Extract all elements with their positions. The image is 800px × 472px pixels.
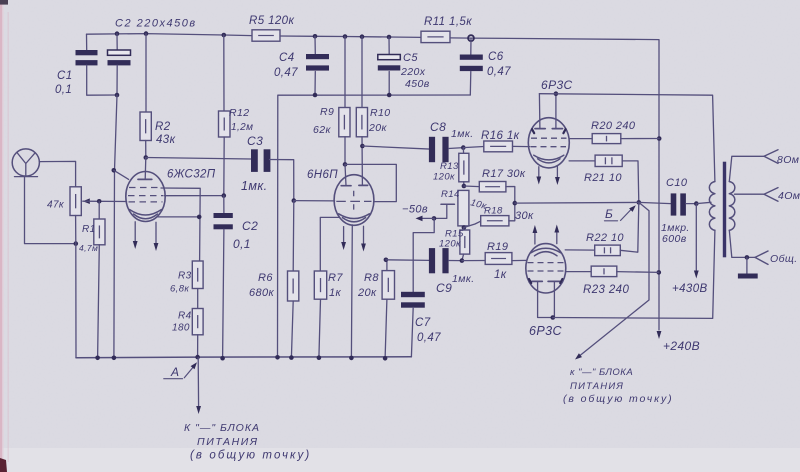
svg-text:1мк.: 1мк. bbox=[241, 179, 268, 193]
wire -50в node to C7 bbox=[413, 218, 434, 291]
svg-text:C4: C4 bbox=[279, 52, 295, 64]
wire V1 cathode to node bbox=[158, 216, 200, 218]
V1 heater arrows bbox=[134, 222, 136, 243]
wire C1C2 node down to grid node bbox=[114, 95, 117, 358]
svg-text:R14: R14 bbox=[441, 189, 460, 200]
resistor R3 6,8к bbox=[192, 261, 203, 289]
resistor R20 240 bbox=[569, 138, 592, 140]
secondary tap Общ bbox=[729, 230, 755, 257]
wire R8 node to C9 bbox=[386, 259, 429, 262]
svg-text:C6: C6 bbox=[488, 51, 504, 63]
svg-text:C9: C9 bbox=[436, 281, 452, 295]
resistor R23 240 bbox=[566, 271, 592, 273]
resistor R11 1,5к bbox=[421, 31, 450, 42]
svg-text:−50в: −50в bbox=[402, 204, 428, 216]
svg-text:180: 180 bbox=[172, 323, 190, 334]
svg-text:1,2м: 1,2м bbox=[231, 122, 253, 133]
svg-text:0,47: 0,47 bbox=[417, 332, 441, 344]
transformer core bbox=[723, 162, 726, 258]
svg-text:0,1: 0,1 bbox=[233, 237, 251, 251]
svg-text:6Р3С: 6Р3С bbox=[541, 78, 573, 92]
svg-text:120к: 120к bbox=[433, 172, 455, 183]
svg-text:R6: R6 bbox=[258, 272, 273, 284]
V1 cathode bbox=[130, 210, 162, 216]
potentiometer 47к bbox=[70, 187, 81, 216]
svg-text:C7: C7 bbox=[415, 317, 431, 329]
svg-text:R17 30к: R17 30к bbox=[482, 168, 526, 180]
svg-text:R8: R8 bbox=[364, 272, 379, 284]
svg-text:К "—" БЛОКА: К "—" БЛОКА bbox=[184, 422, 260, 434]
wire Б node to PSU minus bbox=[578, 202, 650, 357]
svg-text:R1: R1 bbox=[82, 224, 96, 235]
svg-text:0,47: 0,47 bbox=[487, 66, 511, 78]
resistor R7 1к bbox=[314, 271, 326, 299]
wire pot bottom to rail bbox=[75, 216, 77, 358]
svg-text:6,8к: 6,8к bbox=[170, 284, 189, 295]
svg-text:C3: C3 bbox=[247, 134, 263, 148]
svg-text:R2: R2 bbox=[155, 121, 171, 133]
svg-text:8Ом: 8Ом bbox=[777, 154, 799, 166]
svg-text:R9: R9 bbox=[320, 106, 334, 118]
svg-text:R22 10: R22 10 bbox=[586, 232, 624, 244]
svg-text:680к: 680к bbox=[249, 287, 275, 299]
resistor R13 120к bbox=[462, 148, 464, 154]
resistor R1 4,7м bbox=[98, 201, 100, 219]
wire rail to PSU minus bbox=[197, 358, 199, 408]
wire pot wiper to grid bbox=[83, 198, 90, 204]
svg-text:C10: C10 bbox=[666, 177, 688, 189]
V2 heater arrows bbox=[343, 227, 345, 244]
wire C3 to V2 grid bbox=[270, 160, 294, 201]
wire V1 screen to R12/C2 node bbox=[164, 195, 224, 197]
capacitor C8 1мк bbox=[429, 137, 435, 162]
svg-text:R3: R3 bbox=[178, 271, 192, 282]
svg-text:C5: C5 bbox=[403, 52, 418, 64]
resistor R12 1,2м bbox=[223, 35, 225, 111]
wire V2 anode-b to C8 bbox=[362, 146, 432, 149]
svg-text:+430В: +430В bbox=[672, 283, 708, 295]
wire anode top line to transformer bbox=[539, 94, 715, 182]
svg-text:120к: 120к bbox=[439, 239, 461, 250]
secondary tap 4Ом bbox=[735, 193, 765, 195]
resistor R14 10к bbox=[458, 190, 469, 226]
capacitor C3 1мк bbox=[251, 149, 258, 172]
wire V1 suppressor to cathode node bbox=[161, 188, 200, 261]
svg-text:R4: R4 bbox=[178, 311, 192, 322]
svg-text:C2: C2 bbox=[242, 219, 258, 233]
capacitor C2 electrolytic 220x450в bbox=[116, 34, 118, 50]
resistor R9 62к bbox=[344, 37, 346, 108]
transformer T1 secondary bbox=[729, 182, 735, 231]
V4 heater arrows (up) bbox=[534, 231, 536, 244]
svg-text:0,47: 0,47 bbox=[274, 67, 298, 79]
resistor R2 43к bbox=[145, 34, 147, 112]
V2 anodes bbox=[341, 185, 351, 187]
V3 grid dashes bbox=[531, 137, 567, 139]
V1 grids (dashed) bbox=[129, 187, 162, 189]
capacitor C5 electrolytic 220x450в bbox=[388, 37, 390, 55]
capacitor C4 0,47 bbox=[314, 36, 316, 54]
V4 anode bars bbox=[532, 280, 543, 282]
V3 cathode bbox=[534, 155, 564, 160]
V3 anode leads to top line bbox=[538, 94, 541, 129]
svg-text:6ЖС32П: 6ЖС32П bbox=[167, 169, 216, 181]
svg-text:А: А bbox=[170, 365, 179, 379]
svg-text:C2 220x450в: C2 220x450в bbox=[115, 18, 197, 30]
svg-text:R13: R13 bbox=[440, 161, 459, 172]
capacitor C2 0,1 (screen bypass) bbox=[223, 196, 225, 213]
svg-text:R5 120к: R5 120к bbox=[249, 15, 294, 27]
svg-text:47к: 47к bbox=[47, 200, 65, 211]
wire V4 anode to transformer bbox=[538, 281, 553, 317]
capacitor C9 1мк bbox=[429, 248, 435, 273]
resistor R5 120к bbox=[252, 30, 280, 41]
svg-text:+240В: +240В bbox=[663, 339, 700, 353]
svg-text:R7: R7 bbox=[328, 272, 343, 284]
svg-text:C1: C1 bbox=[57, 70, 73, 82]
svg-text:1к: 1к bbox=[329, 287, 342, 299]
resistor R19 1к bbox=[462, 260, 485, 262]
V3 heater arrows bbox=[538, 167, 540, 179]
svg-text:к "—" БЛОКА: к "—" БЛОКА bbox=[570, 367, 633, 378]
wire V2 cathode-b to rail bbox=[350, 225, 353, 358]
svg-text:20к: 20к bbox=[357, 287, 377, 299]
resistor R4 180 bbox=[197, 289, 199, 309]
svg-text:R10: R10 bbox=[370, 107, 390, 119]
svg-text:600в: 600в bbox=[662, 233, 687, 245]
label +430В bbox=[695, 204, 697, 271]
resistor R6 680к bbox=[292, 201, 295, 271]
svg-text:6Н6П: 6Н6П bbox=[307, 169, 338, 181]
svg-text:4,7м: 4,7м bbox=[79, 243, 98, 253]
svg-text:ПИТАНИЯ: ПИТАНИЯ bbox=[570, 381, 624, 392]
capacitor C1 bbox=[86, 34, 88, 50]
svg-text:R16 1к: R16 1к bbox=[481, 130, 520, 142]
wire top supply rail bbox=[87, 34, 253, 36]
wire V2 anode-a to grid-b box bbox=[345, 164, 396, 201]
V2 grid dashes bbox=[336, 200, 371, 202]
svg-text:1к: 1к bbox=[494, 269, 507, 281]
resistor R21 10 bbox=[569, 160, 595, 162]
svg-text:R12: R12 bbox=[229, 107, 249, 119]
svg-text:4Ом: 4Ом bbox=[778, 190, 800, 202]
resistor R17 30к bbox=[464, 185, 479, 188]
svg-text:R19: R19 bbox=[487, 241, 508, 253]
transformer T1 primary bbox=[709, 182, 715, 231]
svg-text:R23 240: R23 240 bbox=[583, 284, 629, 296]
resistor R16 1к bbox=[463, 147, 484, 148]
svg-text:C8: C8 bbox=[430, 120, 446, 134]
tube V3 6Р3С upper bbox=[528, 118, 569, 168]
wire jack to pot bbox=[39, 161, 75, 186]
wire grid diagonal to tube envelope bbox=[114, 170, 129, 179]
svg-text:R11 1,5к: R11 1,5к bbox=[424, 16, 472, 28]
label +240В bbox=[657, 331, 662, 339]
tube V2 6Н6П bbox=[334, 175, 374, 226]
wire V2 cathode-a to R7 bbox=[320, 217, 338, 271]
svg-text:1мк.: 1мк. bbox=[451, 128, 474, 140]
svg-text:1мк.: 1мк. bbox=[452, 273, 475, 285]
capacitor C6 0,47 bbox=[470, 38, 472, 54]
tube V1 6ЖС32П bbox=[126, 172, 165, 222]
wire bottom common rail bbox=[76, 356, 411, 359]
resistor R18 30к bbox=[464, 221, 481, 227]
svg-text:Б: Б bbox=[605, 207, 613, 221]
V3 anode bars bbox=[535, 128, 545, 130]
svg-text:30к: 30к bbox=[515, 210, 534, 222]
V4 cathode (top) bbox=[531, 248, 561, 253]
svg-text:Общ.: Общ. bbox=[770, 253, 798, 265]
svg-text:43к: 43к bbox=[156, 134, 176, 146]
svg-text:62к: 62к bbox=[313, 124, 331, 136]
scanner edge strip bbox=[0, 0, 2, 472]
wire V1 anode to C3 bbox=[146, 158, 251, 160]
V1 anode bbox=[138, 178, 152, 180]
svg-text:R20 240: R20 240 bbox=[591, 120, 636, 132]
svg-text:ПИТАНИЯ: ПИТАНИЯ bbox=[197, 436, 259, 448]
capacitor C10 1мкф 600в bbox=[639, 202, 671, 203]
svg-text:R21 10: R21 10 bbox=[584, 172, 622, 184]
wire mid bus y95 bbox=[278, 95, 471, 357]
resistor R10 20к bbox=[361, 37, 363, 108]
ground bbox=[746, 257, 748, 273]
resistor R8 20к bbox=[386, 260, 388, 271]
V4 grid dashes bbox=[528, 262, 564, 264]
svg-text:(в общую точку): (в общую точку) bbox=[563, 393, 674, 405]
svg-text:(в общую точку): (в общую точку) bbox=[190, 450, 311, 462]
node Б bbox=[637, 200, 642, 205]
wire jack ground bbox=[25, 177, 76, 244]
svg-text:20к: 20к bbox=[368, 122, 387, 134]
capacitor C7 0,47 bbox=[401, 292, 425, 297]
svg-text:R18: R18 bbox=[484, 206, 503, 217]
tube V4 6Р3С lower bbox=[526, 244, 566, 293]
secondary tap 8Ом bbox=[729, 156, 764, 181]
resistor R22 10 bbox=[565, 249, 595, 251]
svg-text:220x: 220x bbox=[400, 66, 426, 78]
input jack X1 bbox=[12, 149, 39, 176]
resistor R15 120к bbox=[463, 228, 465, 231]
V2 cathodes bbox=[339, 214, 370, 219]
svg-text:6Р3С: 6Р3С bbox=[529, 324, 562, 338]
svg-text:450в: 450в bbox=[405, 78, 430, 90]
svg-text:0,1: 0,1 bbox=[55, 84, 72, 96]
